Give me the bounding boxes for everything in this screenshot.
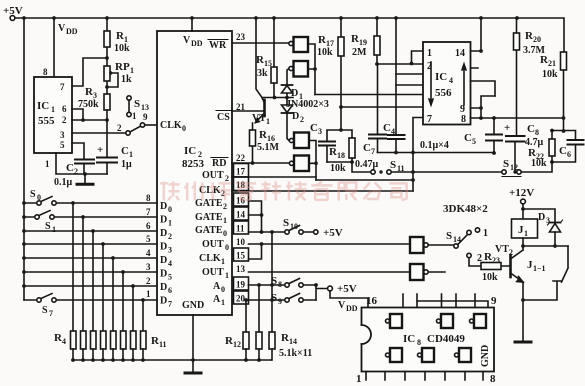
svg-text:S: S (503, 158, 509, 170)
svg-text:D: D (160, 255, 167, 266)
svg-text:6: 6 (567, 150, 571, 159)
svg-text:C: C (464, 132, 472, 144)
svg-text:V: V (58, 23, 66, 34)
wire bottom ground rail (73, 349, 272, 360)
resistor R13 (256, 332, 262, 360)
diode D2 (282, 98, 305, 141)
resistor R17 (317, 18, 344, 130)
svg-text:0: 0 (223, 229, 227, 238)
resistor R3 (78, 86, 110, 120)
op-amp IC4 556 box (423, 42, 471, 125)
svg-text:1: 1 (356, 373, 362, 385)
op-amp IC1 555 timer box (34, 67, 72, 169)
svg-text:5: 5 (60, 140, 65, 150)
capacitor C4 (383, 122, 405, 153)
svg-text:CS: CS (217, 112, 230, 123)
wire J1 bottom node (523, 238, 568, 250)
svg-text:3: 3 (168, 246, 172, 255)
wire OUT0 pin10 line to gate G5 (249, 243, 411, 245)
svg-text:22: 22 (236, 153, 246, 163)
resistor bank R5-R10 (81, 331, 137, 349)
svg-text:20: 20 (236, 294, 246, 304)
svg-text:1: 1 (266, 117, 270, 126)
svg-text:C: C (363, 142, 371, 154)
svg-text:20: 20 (533, 35, 541, 44)
svg-text:14: 14 (453, 235, 461, 244)
svg-text:2: 2 (477, 253, 482, 264)
svg-text:RP: RP (115, 61, 130, 73)
svg-text:V: V (183, 35, 191, 46)
svg-text:D: D (160, 228, 167, 239)
svg-text:WR: WR (209, 40, 227, 51)
svg-text:1: 1 (168, 219, 172, 228)
gate IC8 inverter 1 (386, 314, 403, 328)
transistor VT2 (495, 244, 523, 282)
svg-text:8: 8 (535, 128, 539, 137)
svg-text:2: 2 (117, 123, 122, 133)
wire S8 S9 tie to +5V terminal (314, 283, 327, 300)
svg-text:6: 6 (146, 221, 151, 231)
svg-text:7: 7 (168, 300, 172, 309)
svg-text:555: 555 (38, 115, 55, 127)
svg-text:1: 1 (52, 225, 56, 234)
node rail junctions (22, 16, 519, 20)
svg-text:IC: IC (403, 333, 415, 345)
svg-text:6: 6 (168, 286, 172, 295)
svg-text:4: 4 (146, 248, 151, 258)
wire CLK2 pin18 line (232, 190, 413, 192)
svg-text:S: S (283, 217, 289, 229)
node +5V terminal IC8 (328, 283, 368, 307)
svg-text:CLK: CLK (160, 120, 182, 131)
svg-text:0.47μ: 0.47μ (355, 159, 379, 170)
svg-text:1: 1 (51, 105, 55, 114)
gate IC8 inverter 2 (437, 314, 454, 328)
wire IC2 GND stem (192, 315, 194, 372)
svg-text:+: + (504, 122, 510, 134)
svg-text:A: A (213, 281, 221, 292)
wire left rail to data switches (23, 18, 25, 300)
capacitor C3 (310, 122, 341, 162)
gate G1 inverter (289, 37, 308, 52)
wire S13 pole to IC2 CLK0 pin9 (145, 124, 157, 126)
svg-text:7: 7 (60, 82, 65, 92)
node VDD label left (58, 23, 78, 36)
resistor R22 (528, 131, 555, 170)
svg-text:3DK48×2: 3DK48×2 (443, 203, 488, 215)
svg-text:JN4002×3: JN4002×3 (286, 99, 329, 110)
svg-text:4: 4 (391, 127, 395, 136)
wire IC4 pin1 loop (412, 51, 424, 64)
wire IC1 pin8 drop (53, 18, 55, 77)
watermark (160, 182, 408, 201)
ground symbol IC2 (185, 372, 201, 375)
svg-text:9: 9 (143, 112, 148, 122)
resistor R16 (250, 123, 280, 165)
svg-text:7: 7 (371, 147, 375, 156)
resistor R20 (514, 18, 546, 136)
svg-text:0.1μ: 0.1μ (54, 177, 73, 188)
svg-text:1: 1 (132, 111, 137, 121)
svg-text:S: S (446, 230, 452, 242)
wire OUT1 pin13 line to gate G6 (249, 271, 411, 273)
node 0.1uX4 label (420, 140, 449, 151)
node 3DK48 label (443, 203, 488, 215)
svg-text:CD4049: CD4049 (427, 333, 465, 345)
svg-text:8: 8 (490, 373, 496, 385)
svg-text:16: 16 (366, 295, 378, 307)
svg-text:3k: 3k (257, 68, 268, 79)
svg-text:GATE: GATE (195, 212, 223, 223)
wire caps bottom rail (378, 152, 495, 154)
capacitor C6 (551, 131, 584, 163)
gate IC8 inverter 4 (386, 348, 403, 362)
svg-text:10: 10 (236, 237, 246, 247)
svg-text:0: 0 (221, 285, 225, 294)
ground symbol VT2 (515, 341, 531, 344)
wire data lines D2-D6 (24, 231, 157, 286)
svg-text:7: 7 (49, 309, 53, 318)
svg-text:1: 1 (221, 257, 225, 266)
svg-text:5.1k×11: 5.1k×11 (279, 348, 312, 359)
node D0-D7 labels (160, 201, 172, 309)
resistor R15 (256, 18, 277, 98)
svg-text:VT: VT (252, 113, 266, 124)
svg-text:C: C (310, 122, 318, 134)
svg-text:D: D (160, 201, 167, 212)
svg-text:OUT: OUT (202, 170, 224, 181)
+5V supply terminal (3, 5, 23, 20)
wire gate G3 G4 outputs tie (309, 141, 316, 181)
svg-text:9: 9 (491, 295, 497, 307)
wire data line D0 with switch S0 (24, 189, 157, 205)
resistor RP1 potentiometer (104, 58, 134, 94)
svg-text:OUT: OUT (202, 239, 224, 250)
op-amp IC8 CD4049 box (338, 295, 497, 385)
svg-text:0: 0 (37, 193, 41, 202)
capacitor C8 polarized (504, 122, 544, 174)
resistor R21 (540, 52, 567, 133)
wire data line D7 with switch S7 (24, 294, 157, 319)
resistor R12 (225, 332, 249, 360)
svg-text:DD: DD (346, 304, 358, 313)
switch S12 (502, 158, 521, 177)
svg-text:8: 8 (146, 193, 151, 203)
gate G2 inverter (289, 61, 308, 77)
wire CLK1 tie (249, 244, 262, 259)
svg-text:1: 1 (524, 229, 528, 238)
svg-text:D: D (291, 88, 298, 99)
wire VT2 emitter to ground (522, 282, 524, 341)
node JN4002 label (286, 99, 329, 110)
switch S13 (117, 96, 149, 135)
wire IC4 pin7 drop (413, 118, 423, 192)
svg-text:6: 6 (62, 104, 67, 114)
svg-text:+5V: +5V (323, 227, 343, 239)
wire drops to pull resistors R4-R11 (73, 203, 143, 331)
node data line junctions (22, 201, 145, 302)
svg-text:2M: 2M (352, 47, 367, 58)
svg-text:4: 4 (62, 337, 66, 346)
svg-text:IC: IC (184, 145, 196, 157)
svg-text:RD: RD (212, 158, 226, 169)
svg-text:11: 11 (397, 164, 405, 173)
wire R1 to IC1 pin7 (72, 58, 107, 86)
svg-text:8253: 8253 (182, 158, 205, 170)
wire A1 pin20 line with switch S9 (249, 292, 317, 306)
svg-text:12: 12 (510, 163, 518, 172)
svg-text:GND: GND (182, 300, 204, 311)
svg-text:18: 18 (337, 151, 345, 160)
wire +12V to D3 (523, 209, 555, 222)
svg-text:1: 1 (146, 289, 151, 299)
svg-text:D: D (538, 212, 545, 223)
svg-text:S: S (134, 98, 140, 110)
svg-text:4: 4 (168, 259, 172, 268)
wire CS pin21 to VT1 base (232, 110, 263, 112)
svg-text:1: 1 (221, 298, 225, 307)
svg-text:C: C (66, 162, 74, 174)
svg-text:D: D (160, 282, 167, 293)
resistor R11 (141, 331, 167, 349)
gate IC8 inverter 3 (470, 314, 487, 328)
svg-text:8: 8 (461, 114, 466, 125)
wire IC4 right pins 12 11 stubs (471, 68, 496, 96)
svg-text:1: 1 (223, 216, 227, 225)
svg-text:10k: 10k (542, 69, 558, 80)
svg-text:7: 7 (146, 207, 151, 217)
svg-text:11: 11 (159, 340, 167, 349)
svg-text:+12V: +12V (509, 187, 534, 199)
svg-text:OUT: OUT (202, 267, 224, 278)
wire IC1 pin1 ground run (56, 153, 107, 174)
svg-text:10k: 10k (482, 272, 498, 283)
node collector row (262, 97, 293, 99)
svg-text:D: D (160, 269, 167, 280)
svg-text:C: C (527, 123, 535, 135)
wire GATE2 GATE1 tie (249, 201, 262, 232)
svg-text:V: V (338, 300, 346, 311)
svg-text:23: 23 (236, 32, 246, 42)
capacitor C5 (464, 116, 502, 155)
svg-text:14: 14 (236, 210, 246, 220)
wire IC4 pin3 pin4 stubs (396, 74, 423, 85)
svg-text:15: 15 (264, 59, 272, 68)
switch S11 (352, 159, 502, 174)
wire OUT2 pin17 line (232, 176, 316, 178)
wire drops to R12 R13 R14 (246, 232, 272, 332)
resistor R18 (327, 128, 355, 174)
svg-text:0.1μ×4: 0.1μ×4 (420, 140, 449, 151)
wire S12 to R22 bottom (521, 162, 552, 172)
svg-text:C: C (559, 145, 567, 157)
svg-text:3: 3 (546, 216, 550, 225)
resistor R4 (54, 331, 76, 349)
wire IC8 top pin stubs (403, 294, 475, 307)
svg-text:10k: 10k (317, 47, 333, 58)
svg-text:12: 12 (233, 340, 241, 349)
svg-text:2: 2 (509, 248, 513, 257)
svg-text:9: 9 (278, 297, 282, 306)
svg-text:15: 15 (236, 251, 246, 261)
ground symbol at C2 (77, 174, 93, 184)
svg-text:D: D (160, 296, 167, 307)
resistor R1 (104, 18, 130, 58)
svg-text:0: 0 (182, 124, 186, 133)
gate IC8 inverter 6 (455, 348, 472, 362)
svg-text:10: 10 (290, 222, 298, 231)
wire IC8 bottom pin stubs (366, 372, 483, 381)
diode D1 (282, 69, 304, 102)
svg-text:556: 556 (435, 87, 452, 99)
svg-text:IC: IC (37, 100, 49, 112)
svg-text:8: 8 (43, 67, 48, 77)
wire top +5V rail (15, 18, 564, 52)
svg-text:1: 1 (45, 159, 50, 169)
wire IC4 pin9 bracket (471, 96, 496, 118)
capacitor C7 (363, 64, 386, 156)
svg-text:8: 8 (278, 280, 282, 289)
svg-text:D: D (160, 242, 167, 253)
svg-text:1: 1 (427, 48, 432, 59)
gate IC8 inverter 5 (418, 348, 435, 362)
svg-text:1: 1 (225, 271, 229, 280)
wire RD pin22 to gate G4 input (232, 162, 289, 164)
svg-text:A: A (213, 294, 221, 305)
svg-text:2: 2 (168, 232, 172, 241)
svg-text:C: C (121, 145, 129, 157)
wire GATE0 pin11 line with switch S10 (249, 217, 343, 239)
capacitor C1 polarized (97, 120, 133, 174)
svg-text:17: 17 (236, 167, 246, 177)
svg-text:D: D (160, 215, 167, 226)
svg-text:0: 0 (225, 243, 229, 252)
wire node to x413 (316, 179, 413, 181)
svg-text:10k: 10k (114, 43, 130, 54)
svg-text:10k: 10k (330, 163, 346, 174)
svg-text:S: S (30, 189, 36, 200)
svg-text:2: 2 (225, 174, 229, 183)
svg-text:CLK: CLK (199, 253, 221, 264)
svg-text:2: 2 (300, 115, 304, 124)
capacitor C2 (54, 160, 94, 189)
gate G6 inverter (410, 264, 445, 280)
svg-text:3: 3 (318, 127, 322, 136)
svg-text:10k: 10k (531, 158, 547, 169)
node +12V supply (509, 187, 534, 219)
svg-text:14: 14 (289, 337, 297, 346)
wire A0 pin19 line with switch S8 (249, 275, 317, 289)
svg-text:14: 14 (455, 48, 465, 59)
wire data line D1 with switch S1 (24, 211, 157, 235)
wire IC1 pins 6,2 to R3 bottom node (72, 109, 107, 120)
svg-text:VT: VT (495, 244, 509, 255)
svg-text:0: 0 (168, 205, 172, 214)
svg-text:3: 3 (146, 262, 151, 272)
diode D3 (538, 212, 563, 246)
op-amp IC2 8253 box (157, 18, 232, 315)
svg-text:21: 21 (548, 59, 556, 68)
svg-text:S: S (390, 159, 396, 171)
wire IC1 pin3 to S13 contact 2 (72, 132, 126, 134)
svg-text:S: S (42, 305, 48, 316)
gate G3 inverter (289, 133, 309, 149)
svg-text:GATE: GATE (195, 225, 223, 236)
svg-text:2: 2 (62, 115, 67, 125)
svg-text:DD: DD (66, 27, 78, 36)
resistor R14 (269, 332, 312, 360)
svg-text:C: C (383, 122, 391, 134)
wire IC4 pin2 row (377, 18, 423, 135)
svg-text:5.1M: 5.1M (257, 142, 280, 153)
svg-text:+5V: +5V (337, 283, 357, 295)
svg-text:19: 19 (359, 38, 367, 47)
svg-text:8: 8 (417, 338, 421, 347)
svg-text:D: D (292, 111, 299, 122)
svg-text:1μ: 1μ (121, 159, 132, 170)
wire IC8 pin9 feed (417, 301, 488, 307)
svg-text:GND: GND (480, 345, 491, 367)
transistor VT1 (252, 98, 270, 127)
gate G4 inverter (289, 156, 309, 172)
resistor R19 (351, 18, 380, 64)
wire IC4 pin8 line to R21 (471, 117, 564, 119)
wire rail to IC4 pin5 (315, 94, 423, 96)
wire WR pin23 to rail and gate G1 input (232, 18, 289, 43)
svg-text:1: 1 (129, 150, 133, 159)
svg-text:1−1: 1−1 (533, 264, 546, 273)
svg-text:19: 19 (236, 280, 246, 290)
resistor R23 horizontal (469, 251, 510, 283)
svg-text:13: 13 (141, 103, 149, 112)
svg-text:3: 3 (60, 130, 65, 140)
svg-text:5: 5 (168, 273, 172, 282)
svg-text:GATE: GATE (195, 198, 223, 209)
transistor VT1 collector drop (256, 43, 262, 98)
wire IC1 pin5 to C2 (72, 143, 84, 159)
svg-text:2: 2 (223, 202, 227, 211)
wire IC4 pin14 to rail (471, 18, 482, 51)
wire rail to IC4 pin6 (341, 106, 423, 108)
svg-text:11: 11 (236, 224, 245, 234)
svg-text:IC: IC (435, 71, 447, 83)
relay J1 (512, 219, 538, 238)
svg-text:7: 7 (427, 114, 432, 125)
svg-text:4: 4 (449, 76, 453, 85)
svg-text:2: 2 (146, 276, 151, 286)
wire gate outputs tie vertical (308, 44, 315, 95)
svg-text:1k: 1k (121, 74, 132, 85)
node pin numbers data bus (146, 193, 151, 299)
svg-text:1: 1 (483, 228, 488, 239)
svg-text:5: 5 (146, 234, 151, 244)
pin number boxes right side IC2 (234, 32, 249, 304)
svg-text:23: 23 (492, 256, 500, 265)
svg-text:13: 13 (236, 264, 246, 274)
svg-text:5: 5 (472, 137, 476, 146)
switch S14 (446, 228, 488, 264)
svg-text:+: + (97, 144, 103, 156)
svg-text:DD: DD (191, 39, 203, 48)
switch J1-1 relay contact (523, 246, 568, 300)
gate G5 inverter (410, 237, 454, 253)
